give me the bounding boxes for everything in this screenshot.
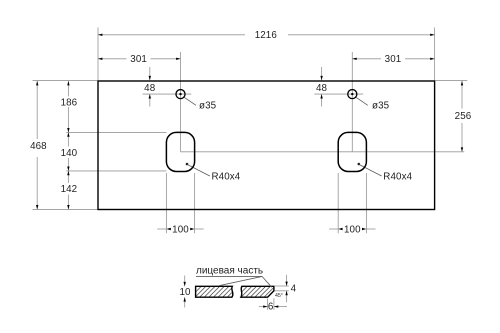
svg-text:301: 301 [385, 54, 402, 65]
label underline litsevaya chast [196, 275, 262, 277]
leader R40x4 right dot [358, 163, 361, 166]
dimension 100 left line [157, 228, 166, 230]
svg-text:142: 142 [61, 184, 78, 195]
dimension 48 left line [149, 67, 151, 80]
dimension 1216 line [98, 34, 245, 36]
extension line: right edge vertical above top [434, 28, 436, 81]
svg-text:100: 100 [172, 224, 189, 235]
leader diameter 35 right [356, 97, 368, 105]
construction line: left hole horizontal [143, 93, 192, 95]
dimension 48 right line [321, 67, 323, 80]
leader to left bar [219, 276, 262, 285]
dimension 6 extension lines [267, 299, 269, 310]
construction line: right hole horizontal [314, 93, 363, 95]
right sink cutout [338, 132, 366, 171]
dimension 301 right line [352, 58, 381, 60]
dimension 4 extension lines [275, 285, 289, 287]
dimension 142 line [67, 171, 69, 183]
svg-text:48: 48 [144, 83, 156, 94]
svg-text:лицевая часть: лицевая часть [196, 266, 263, 277]
panel outline top view [98, 81, 435, 210]
svg-text:186: 186 [61, 98, 78, 109]
construction line: right hole center vertical [351, 52, 353, 152]
svg-text:1216: 1216 [255, 30, 278, 41]
leader R40x4 left [188, 165, 210, 176]
dimension 10 line [184, 276, 186, 287]
dimension 468 line [36, 81, 38, 139]
extension line: left cutout right edge for 100 [194, 173, 196, 233]
svg-text:468: 468 [30, 141, 47, 152]
dimension 186 line [67, 81, 69, 97]
svg-text:140: 140 [61, 148, 78, 159]
extension line: bottom-left corner horizontal [33, 208, 98, 210]
leader to right bar [262, 276, 272, 287]
extension line: right cutout left edge for 100 [337, 173, 339, 233]
svg-text:48: 48 [316, 83, 328, 94]
left faucet hole [176, 90, 185, 99]
dimension 301 left line [98, 58, 127, 60]
svg-text:100: 100 [344, 224, 361, 235]
extension line: cutout top level [66, 131, 166, 133]
leader R40x4 left dot [186, 163, 189, 166]
dimension 100 right line [329, 228, 338, 230]
dimension 6 line [259, 306, 268, 308]
construction line: cutout center horizontal to 256 dim [181, 151, 465, 153]
extension line: right cutout right edge for 100 [365, 173, 367, 233]
leader R40x4 right [359, 165, 381, 176]
svg-text:301: 301 [130, 54, 147, 65]
svg-text:R40x4: R40x4 [383, 172, 412, 183]
svg-text:10: 10 [179, 287, 191, 298]
left sink cutout [166, 132, 194, 171]
svg-text:4: 4 [291, 284, 297, 295]
svg-text:45°: 45° [275, 293, 283, 299]
extension line: top-left corner horizontal [33, 79, 98, 81]
dimension 140 line [67, 132, 69, 146]
section right bar with chamfer [241, 286, 274, 297]
svg-text:ø35: ø35 [199, 101, 217, 112]
extension line: left edge vertical above top [97, 28, 99, 81]
right faucet hole [348, 90, 357, 99]
svg-text:6: 6 [268, 302, 274, 313]
section left bar [196, 286, 233, 297]
extension line: top-right corner horizontal [435, 79, 467, 81]
dimension 256 line [461, 81, 463, 109]
construction line: left hole center vertical [180, 52, 182, 152]
leader diameter 35 left [184, 97, 196, 105]
svg-text:256: 256 [455, 111, 472, 122]
svg-text:ø35: ø35 [372, 101, 390, 112]
extension line: left cutout left edge for 100 [165, 173, 167, 233]
svg-text:R40x4: R40x4 [212, 172, 241, 183]
extension line: cutout bottom level [66, 170, 166, 172]
dimension 4 line [286, 275, 288, 286]
